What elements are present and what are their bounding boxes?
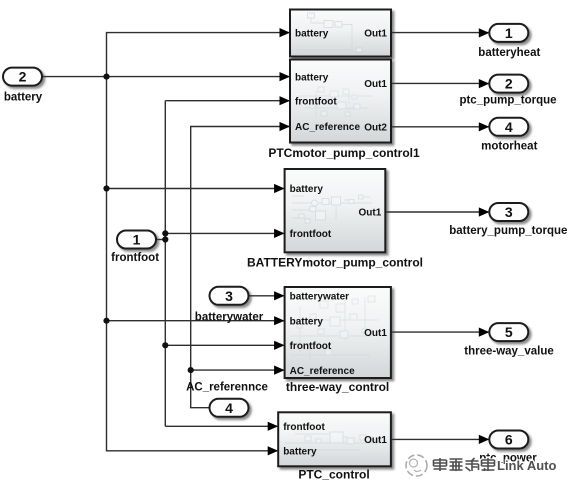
outport 3 oval [489,203,528,221]
wire: AC_reference branch to three-way_control [191,369,284,371]
svg-text:motorheat: motorheat [481,140,537,152]
wire: block5 Out1 to outport 6 [391,438,488,440]
wire: frontfoot net from inport 1 [156,239,165,241]
svg-text:Out2: Out2 [364,123,387,134]
outport 4 oval [489,118,528,136]
svg-text:Out1: Out1 [359,208,382,219]
svg-text:battery: battery [4,92,43,104]
arrowhead into block4 batterywater [274,291,285,300]
junction dot frontfoot/block4 [162,342,168,348]
arrowhead into block5 battery [268,446,279,455]
block U5 PTC_control [278,412,391,466]
arrowhead into outport 2 [479,79,490,88]
junction dot battery/inport2 [103,74,109,80]
arrowhead into block3 battery [274,184,285,193]
svg-text:frontfoot: frontfoot [290,341,332,352]
wire: block1 Out1 to outport 1 [391,32,488,34]
junction dot battery/block3 [103,185,109,191]
junction dot AC_reference/block4 [188,367,194,373]
block U2 preview sketch [298,87,372,118]
svg-text:3: 3 [505,204,513,220]
wire: block3 Out1 to outport 3 [385,211,488,213]
outport 2 oval [489,75,528,93]
wire: battery net from inport 2 to PTCmotor_pump_control1 battery [42,76,289,78]
arrowhead into block4 AC_reference [274,366,285,375]
arrowhead into outport 1 [479,28,490,37]
svg-text:Out1: Out1 [364,328,387,339]
svg-text:BATTERYmotor_pump_control: BATTERYmotor_pump_control [247,256,423,270]
wire: frontfoot to BATTERYmotor_pump_control frontfoot [165,232,283,234]
arrowhead into block5 frontfoot [268,422,279,431]
wire: frontfoot to three-way_control frontfoot [165,344,283,346]
arrowhead into block2 battery [280,72,291,81]
svg-text:battery: battery [290,184,324,195]
wire: battery branch to three-way_control battery [107,320,284,322]
outport 5 oval [489,323,528,341]
svg-text:three-way_value: three-way_value [464,346,554,358]
inport 3 oval [210,287,249,305]
wire: block2 Out2 to outport 4 [391,126,488,128]
arrowhead into block1 battery [280,28,291,37]
svg-text:2: 2 [505,76,513,92]
svg-text:5: 5 [505,324,513,340]
wire: block2 Out1 to outport 2 [391,82,488,84]
svg-text:AC_reference: AC_reference [290,366,355,377]
wire: block4 Out1 to outport 5 [391,331,488,333]
svg-text:Out1: Out1 [364,435,387,446]
wire: frontfoot to PTC_control frontfoot [165,425,277,427]
svg-text:batteryheat: batteryheat [478,47,540,59]
watermark CJK glyph 2 [450,459,463,471]
block U3 BATTERYmotor_pump_control [285,169,386,252]
block U1 preview sketch [297,13,362,52]
svg-text:1: 1 [133,232,141,248]
arrowhead into block4 battery [274,316,285,325]
watermark logo circle [406,455,427,476]
svg-text:4: 4 [505,119,513,135]
svg-text:PTCmotor_pump_control1: PTCmotor_pump_control1 [268,146,420,160]
wire: AC_reference net from inport 4 [191,127,289,408]
svg-text:Link Auto: Link Auto [497,458,557,473]
block U1 subsystem (top, unnamed) [290,10,391,57]
wire: batterywater from inport 3 [247,295,284,297]
block U2 PTCmotor_pump_control1 [290,60,391,143]
svg-text:1: 1 [505,25,513,41]
svg-text:6: 6 [505,432,513,448]
svg-text:three-way_control: three-way_control [286,380,389,394]
wire: frontfoot vertical trunk [164,101,166,427]
outport 1 oval [489,24,528,42]
svg-text:Out1: Out1 [364,28,387,39]
arrowhead into outport 4 [479,122,490,131]
inport 2 oval [3,68,42,86]
svg-text:battery_pump_torque: battery_pump_torque [449,225,567,237]
arrowhead into block2 AC_reference [280,122,291,131]
svg-text:3: 3 [225,288,233,304]
inport 4 oval [210,399,249,417]
watermark CJK glyph 3 [466,458,479,471]
wire: battery branch down to PTC_control battery [107,77,278,451]
arrowhead into outport 3 [479,207,490,216]
arrowhead into block4 frontfoot [274,341,285,350]
arrowhead into outport 5 [479,328,490,337]
svg-text:AC_reference: AC_reference [295,122,360,133]
watermark CJK glyph 1 [434,458,447,471]
svg-text:frontfoot: frontfoot [290,229,332,240]
inport 1 oval [117,231,156,249]
arrowhead into block2 frontfoot [280,96,291,105]
block U4 preview sketch [290,296,378,360]
svg-text:Out1: Out1 [364,79,387,90]
watermark CJK glyph 4 [482,458,495,471]
outport 6 oval [489,431,528,449]
svg-text:frontfoot: frontfoot [283,422,325,433]
svg-text:batterywater: batterywater [290,292,350,303]
svg-text:frontfoot: frontfoot [111,252,159,264]
svg-text:PTC_control: PTC_control [298,468,369,482]
block U3 preview sketch [292,195,372,223]
wire: battery branch up to block1 battery [107,33,290,77]
arrowhead into outport 6 [479,435,490,444]
junction dot frontfoot/inport1 [162,236,168,242]
block U5 preview sketch [284,432,385,450]
svg-text:batterywater: batterywater [195,311,264,323]
svg-text:4: 4 [225,400,233,416]
junction dot frontfoot/block3 [162,230,168,236]
svg-text:battery: battery [295,28,329,39]
wire: frontfoot to PTCmotor_pump_control1 frontfoot [165,100,289,102]
svg-text:frontfoot: frontfoot [295,96,337,107]
wire: battery branch to BATTERYmotor_pump_control battery [107,188,284,190]
svg-text:AC_referennce: AC_referennce [186,382,268,394]
svg-text:2: 2 [19,69,27,85]
svg-text:battery: battery [290,316,324,327]
svg-text:battery: battery [283,447,317,458]
svg-text:ptc_pump_torque: ptc_pump_torque [459,94,556,106]
block U4 three-way_control [285,287,391,378]
arrowhead into block3 frontfoot [274,229,285,238]
junction dot battery/block4 [103,318,109,324]
svg-text:battery: battery [295,72,329,83]
